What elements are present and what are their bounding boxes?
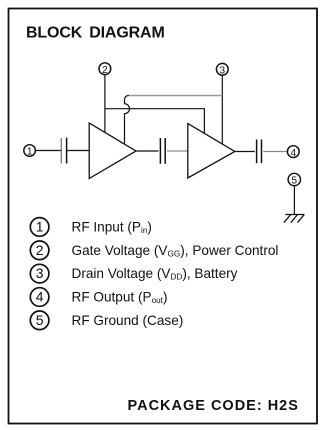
- node 2 (gate voltage terminal): [99, 63, 111, 76]
- svg-text:RF Input (Pin): RF Input (Pin): [72, 219, 152, 235]
- svg-text:Drain Voltage (VDD), Battery: Drain Voltage (VDD), Battery: [72, 266, 238, 282]
- svg-text:2: 2: [102, 65, 108, 76]
- svg-text:PACKAGE CODE: H2S: PACKAGE CODE: H2S: [128, 398, 299, 414]
- svg-text:3: 3: [36, 265, 44, 281]
- svg-text:1: 1: [36, 218, 44, 234]
- svg-text:5: 5: [292, 176, 298, 187]
- pin 1 legend symbol: [30, 218, 49, 237]
- node 3 (drain voltage terminal): [216, 63, 228, 76]
- svg-text:RF Ground (Case): RF Ground (Case): [72, 313, 184, 328]
- capacitor C1 (input DC block): [61, 138, 66, 164]
- svg-text:2: 2: [36, 242, 44, 258]
- svg-text:1: 1: [27, 147, 33, 158]
- wire node 3 down to A2 drain: [221, 75, 223, 144]
- wire node 1 to C1: [36, 150, 62, 152]
- amplifier A2 (second stage): [188, 124, 235, 179]
- wire node 5 to ground: [293, 186, 295, 215]
- pin 5 legend symbol: [30, 311, 49, 330]
- capacitor C2 (interstage DC block): [160, 138, 165, 164]
- wire C3 to node 4: [263, 151, 287, 153]
- wire node 2 down to A1 gate: [104, 75, 106, 133]
- svg-text:RF Output (Pout): RF Output (Pout): [72, 290, 168, 306]
- amplifier A1 (first stage): [89, 123, 136, 179]
- ground (chassis, case): [284, 215, 304, 223]
- svg-text:5: 5: [36, 312, 44, 328]
- node 1 (RF input terminal): [24, 145, 36, 158]
- pin 4 legend symbol: [30, 288, 49, 307]
- wire gate bus node 2 to A2 gate: [105, 109, 204, 134]
- title BLOCK DIAGRAM: [26, 25, 165, 42]
- capacitor C3 (output DC block): [257, 140, 262, 164]
- wire C2 to amplifier A2: [167, 150, 188, 152]
- wire A1 output to C2: [136, 150, 159, 152]
- svg-text:Gate Voltage (VGG), Power Cont: Gate Voltage (VGG), Power Control: [72, 243, 279, 259]
- svg-text:4: 4: [291, 148, 297, 159]
- svg-text:4: 4: [36, 289, 44, 305]
- node 5 (RF ground terminal): [288, 173, 300, 186]
- svg-text:3: 3: [220, 66, 226, 77]
- wire drain bus corner and hop over gate bus into A1: [125, 96, 130, 145]
- wire A2 output to C3: [235, 151, 255, 153]
- wire C1 to amplifier A1: [67, 150, 90, 152]
- svg-text:BLOCK DIAGRAM: BLOCK DIAGRAM: [26, 25, 165, 42]
- pin 2 legend symbol: [30, 241, 49, 260]
- node 4 (RF output terminal): [287, 146, 299, 159]
- wire drain bus node 3 to A1 (horizontal gray run): [129, 95, 222, 97]
- pin 3 legend symbol: [30, 264, 49, 283]
